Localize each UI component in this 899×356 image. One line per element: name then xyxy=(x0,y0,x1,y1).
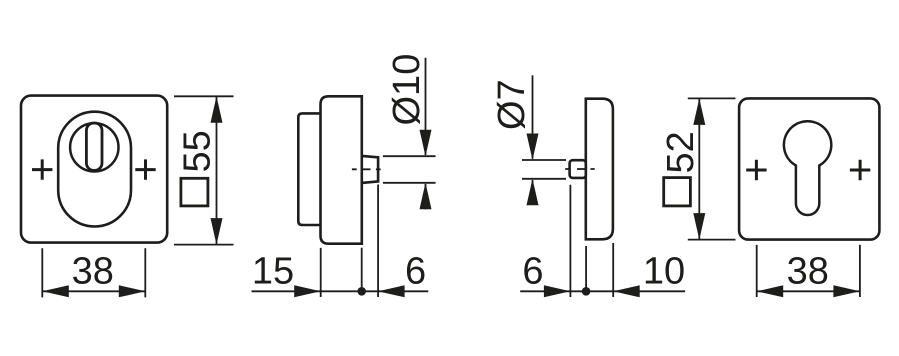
view 1: knob slot xyxy=(86,123,102,170)
view 4: dim 38 arrowheads xyxy=(757,285,784,297)
view 1: square symbol of 55 xyxy=(181,178,208,206)
view 4: square symbol of 52 xyxy=(664,178,691,206)
view 2: dim O10 extension lines xyxy=(383,156,436,183)
view 1: oval cylinder cover xyxy=(58,112,131,227)
svg-text:10: 10 xyxy=(643,251,685,293)
view 2: dim 6 arrowhead xyxy=(378,285,405,297)
view 1: left screw cross xyxy=(32,159,52,179)
svg-text:6: 6 xyxy=(405,251,426,293)
view 4: left screw cross xyxy=(746,160,766,180)
svg-text:55: 55 xyxy=(177,130,219,172)
svg-text:38: 38 xyxy=(787,251,829,293)
svg-text:6: 6 xyxy=(522,251,543,293)
view 4: dim 52 line xyxy=(698,98,700,239)
view 1: square rose front, outer plate xyxy=(21,96,167,243)
view 4: dim 52 extension lines xyxy=(688,98,736,239)
view 4: dim 38 extension lines xyxy=(757,245,860,297)
view 2: cylinder stem xyxy=(362,156,378,183)
view 4: dim 38 line xyxy=(757,290,860,292)
view 3: main body profile xyxy=(586,99,613,240)
view 3: dim 6 arrowhead xyxy=(544,285,571,297)
view 3: dim O7 arrowheads xyxy=(527,134,539,161)
view 3: dim O7 line xyxy=(532,75,534,205)
view 3: dim 10 arrowhead xyxy=(613,285,640,297)
view 4: square rose front, outer plate xyxy=(739,98,879,239)
view 2: stem centerline xyxy=(352,168,381,170)
view 3: cylinder stem xyxy=(570,160,586,178)
view 3: dim O7 extension lines xyxy=(522,160,566,179)
view 4: euro profile cylinder hole xyxy=(784,121,831,215)
view 3: junction dot xyxy=(582,287,591,296)
svg-text:52: 52 xyxy=(660,131,702,173)
view 3: dim 6/10 extension lines xyxy=(570,185,613,297)
view 1: dim 38 arrowheads xyxy=(42,285,69,297)
view 3: stem centerline xyxy=(565,168,595,170)
view 3: dim 6/10 line xyxy=(520,290,685,292)
svg-text:38: 38 xyxy=(72,251,114,293)
view 4: right screw cross xyxy=(850,160,870,180)
view 1: dim 55 arrowheads xyxy=(211,96,223,123)
view 2: underplate profile xyxy=(298,113,320,225)
view 2: dim 15/6 extension lines xyxy=(321,185,378,298)
svg-text:Ø10: Ø10 xyxy=(386,54,428,126)
view 2: dim 15 arrowhead xyxy=(294,285,321,297)
view 2: junction dot xyxy=(357,287,366,296)
svg-text:Ø7: Ø7 xyxy=(491,79,533,130)
view 4: dim 52 arrowheads xyxy=(693,98,705,125)
view 2: dim 15/6 line xyxy=(252,290,429,292)
view 1: turn knob circle xyxy=(70,123,118,171)
svg-text:15: 15 xyxy=(252,251,294,293)
view 1: dim 38 line xyxy=(42,290,145,292)
view 1: dim 55 line xyxy=(216,96,218,244)
view 1: dim 38 extension lines xyxy=(42,248,145,297)
view 2: main body profile xyxy=(321,96,362,243)
view 1: right screw cross xyxy=(135,159,155,179)
view 2: dim O10 line xyxy=(425,58,427,210)
view 2: dim O10 arrowheads xyxy=(420,130,432,157)
view 1: dim 55 extension lines xyxy=(174,96,234,244)
